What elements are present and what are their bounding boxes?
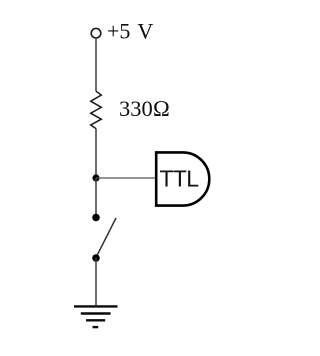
- switch upper contact: [92, 214, 100, 222]
- power terminal +5V: [91, 28, 101, 38]
- wire node to TTL gate input: [96, 177, 155, 179]
- node junction dot: [92, 174, 99, 181]
- TTL gate U1: [156, 152, 209, 205]
- svg-text:330Ω: 330Ω: [119, 96, 170, 121]
- svg-text:TTL: TTL: [160, 166, 200, 192]
- resistor R1: [91, 91, 102, 128]
- switch lower contact: [92, 254, 100, 262]
- wire node to switch: [95, 178, 97, 218]
- ground: [74, 306, 118, 327]
- svg-text:+5 V: +5 V: [107, 19, 153, 44]
- wire switch to ground: [95, 258, 97, 305]
- wire supply to resistor: [95, 39, 97, 91]
- switch blade: [97, 218, 117, 257]
- wire resistor to node: [95, 129, 97, 178]
